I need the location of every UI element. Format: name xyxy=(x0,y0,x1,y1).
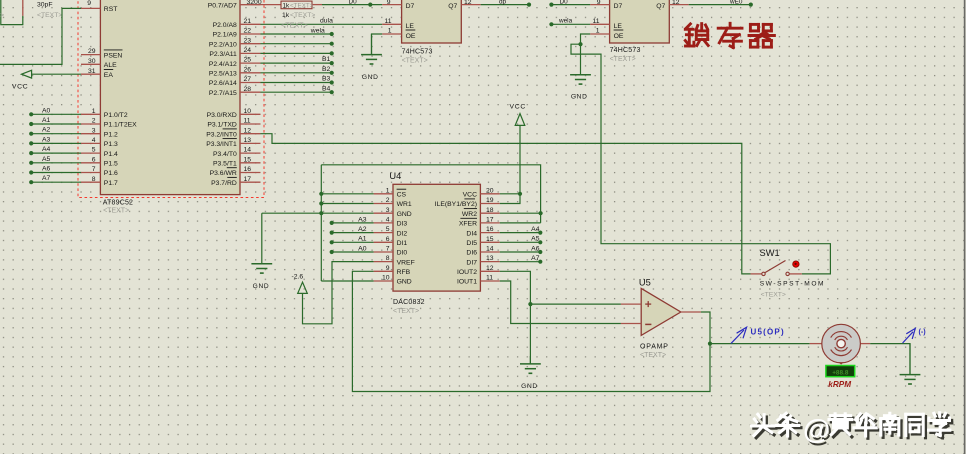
svg-text:A2: A2 xyxy=(42,127,51,134)
latch U2 pin D7 (9) xyxy=(382,4,401,6)
svg-text:A2: A2 xyxy=(358,226,367,233)
wire A2 xyxy=(31,133,81,135)
svg-text:16: 16 xyxy=(486,226,494,233)
svg-text:A3: A3 xyxy=(358,216,367,223)
svg-text:15: 15 xyxy=(244,156,252,163)
capacitor C2 pin (top-left, cut off) xyxy=(22,0,24,16)
svg-text:7: 7 xyxy=(92,166,96,173)
latch U3 74HC573 body xyxy=(610,0,670,43)
window right edge xyxy=(964,0,966,454)
latch U3 pin Q7 (12) xyxy=(669,4,688,6)
svg-text:74HC573: 74HC573 xyxy=(610,47,641,54)
svg-text:ILE(BY1/BY2): ILE(BY1/BY2) xyxy=(435,201,477,208)
svg-text:SW-SPST-MOM: SW-SPST-MOM xyxy=(760,280,825,287)
wire B3 xyxy=(261,82,332,84)
svg-text:P3.7/RD: P3.7/RD xyxy=(211,180,237,187)
MCU right pin stubs xyxy=(240,4,261,6)
power terminal VCC (EA) xyxy=(22,70,32,78)
svg-text:EA: EA xyxy=(104,72,114,79)
wire A3 xyxy=(31,142,81,144)
svg-text:GND: GND xyxy=(397,211,412,218)
wire A7 xyxy=(500,261,541,263)
latch U2 pin Q7 (12) xyxy=(461,4,480,6)
svg-text:AT89C52: AT89C52 xyxy=(103,199,133,206)
svg-text:A5: A5 xyxy=(42,156,51,163)
svg-text:T>: T> xyxy=(0,12,4,19)
DAC U4 left pin stubs xyxy=(374,193,393,195)
svg-text:P1.4: P1.4 xyxy=(104,151,118,158)
ground (motor return) xyxy=(909,344,911,375)
svg-text:<TEXT>: <TEXT> xyxy=(290,12,315,19)
wire WR1 to ground net xyxy=(321,203,373,205)
svg-text:P0.7/AD7: P0.7/AD7 xyxy=(208,2,237,9)
svg-text:26: 26 xyxy=(244,66,252,73)
MCU U1 AT89C52 body xyxy=(100,0,240,195)
svg-text:VCC: VCC xyxy=(12,83,28,90)
wire ground net top horizontal to WR2/XFER xyxy=(321,165,540,223)
svg-text:12: 12 xyxy=(672,0,680,6)
svg-text:OE: OE xyxy=(614,33,624,40)
svg-text:IOUT2: IOUT2 xyxy=(457,269,477,276)
op-amp output pin stub xyxy=(681,311,701,313)
svg-text:VREF: VREF xyxy=(397,259,415,266)
wire opamp output to motor node xyxy=(701,312,710,344)
svg-text:A6: A6 xyxy=(531,245,540,252)
svg-text:D7: D7 xyxy=(614,3,623,10)
wire A0 xyxy=(31,113,81,115)
motor rpm display xyxy=(826,366,855,377)
wire P2.2 xyxy=(261,43,332,45)
svg-text:<TEXT>: <TEXT> xyxy=(640,352,666,359)
svg-text:1: 1 xyxy=(92,108,96,115)
svg-text:B4: B4 xyxy=(322,85,331,92)
svg-text:10: 10 xyxy=(244,108,252,115)
svg-text:P2.2/A10: P2.2/A10 xyxy=(209,41,237,48)
svg-text:<TEXT>: <TEXT> xyxy=(103,208,129,215)
svg-text:10: 10 xyxy=(382,275,390,282)
svg-text:A1: A1 xyxy=(42,117,51,124)
svg-text:WR1: WR1 xyxy=(397,201,412,208)
svg-text:OE: OE xyxy=(406,33,416,40)
wire RST net xyxy=(0,8,81,64)
svg-text:12: 12 xyxy=(464,0,472,6)
svg-text:19: 19 xyxy=(486,197,494,204)
latch U2 pin OE (1) xyxy=(382,33,401,35)
wire P3.2/INT0 to SW1 xyxy=(261,134,751,274)
wire net dula (P2.0 to U2 LE) xyxy=(261,23,383,25)
svg-text:5: 5 xyxy=(386,226,390,233)
svg-text:+88.8: +88.8 xyxy=(832,369,849,376)
svg-text:A7: A7 xyxy=(531,255,540,262)
wire opamp + input xyxy=(530,303,621,305)
svg-text:4: 4 xyxy=(92,137,96,144)
latch U2 pin LE (11) xyxy=(382,23,401,25)
svg-text:GND: GND xyxy=(362,74,379,81)
latch U3 pin D7 (9) xyxy=(590,4,609,6)
wire VCC to DAC pins 20,19 xyxy=(500,125,520,193)
svg-text:11: 11 xyxy=(486,275,493,282)
svg-text:GND: GND xyxy=(521,383,538,390)
svg-text:P3.2/INT0: P3.2/INT0 xyxy=(206,131,237,138)
svg-text:P1.6: P1.6 xyxy=(104,170,118,177)
svg-text:4: 4 xyxy=(386,217,390,224)
wire ground net vertical xyxy=(320,165,322,281)
svg-text:18: 18 xyxy=(486,207,494,214)
svg-text:SW1: SW1 xyxy=(760,248,780,258)
svg-text:P2.7/A15: P2.7/A15 xyxy=(209,90,237,97)
wire net D0 into U3 D7 xyxy=(551,4,590,6)
voltage probe U5(OP) xyxy=(731,330,744,343)
wire net wela (P2.1) xyxy=(261,33,332,35)
wire B2 xyxy=(261,72,332,74)
DAC U4 DAC0832 body xyxy=(393,184,480,291)
svg-text:PSEN: PSEN xyxy=(104,52,123,59)
latch U3 pin OE (1) xyxy=(590,33,609,35)
svg-text:30pF: 30pF xyxy=(37,1,53,8)
wire XFER xyxy=(500,222,541,224)
wire A1 xyxy=(31,123,81,125)
watermark toutiao @huanghuanan (white with shadow) xyxy=(754,417,776,438)
svg-text:D0: D0 xyxy=(560,0,569,6)
svg-text:A7: A7 xyxy=(42,175,51,182)
svg-text:23: 23 xyxy=(244,37,252,44)
svg-text:15: 15 xyxy=(486,236,494,243)
wire A5 xyxy=(31,162,81,164)
svg-text:DI4: DI4 xyxy=(466,230,477,237)
svg-text:<TEXT>: <TEXT> xyxy=(281,21,308,30)
switch SW1 lever xyxy=(765,261,786,273)
svg-text:9: 9 xyxy=(386,265,390,272)
svg-text:wE0: wE0 xyxy=(729,0,743,5)
op-amp input pin stubs xyxy=(621,303,641,305)
wire A0 xyxy=(332,251,374,253)
svg-text:B3: B3 xyxy=(322,76,331,83)
wire A3 xyxy=(332,222,374,224)
svg-text:22: 22 xyxy=(244,28,252,35)
svg-text:GND: GND xyxy=(253,283,270,290)
svg-text:DI0: DI0 xyxy=(397,250,408,257)
svg-text:VCC: VCC xyxy=(463,192,477,199)
svg-text:Q7: Q7 xyxy=(656,3,665,10)
wire P2.3 xyxy=(261,52,332,54)
svg-text:12: 12 xyxy=(486,265,494,272)
wire U2 Q7 (net dp) xyxy=(481,4,529,6)
svg-text:1k: 1k xyxy=(283,2,291,9)
svg-text:DAC0832: DAC0832 xyxy=(393,299,425,306)
svg-text:DI7: DI7 xyxy=(466,259,477,266)
wire ground net to GND pin10 xyxy=(321,280,373,282)
svg-text:ALE: ALE xyxy=(104,62,117,69)
svg-text:P3.0/RXD: P3.0/RXD xyxy=(207,112,237,119)
op-amp U5 OPAMP xyxy=(641,288,681,335)
svg-text:U5(OP): U5(OP) xyxy=(751,327,785,336)
svg-text:<TEXT>: <TEXT> xyxy=(402,58,428,65)
wire A1 xyxy=(332,241,374,243)
svg-text:<TEXT>: <TEXT> xyxy=(761,291,786,298)
svg-text:2: 2 xyxy=(92,118,96,125)
svg-text:A1: A1 xyxy=(358,236,367,243)
svg-text:9: 9 xyxy=(387,0,391,6)
svg-text:P2.1/A9: P2.1/A9 xyxy=(213,32,237,39)
svg-text:1: 1 xyxy=(596,28,600,35)
svg-text:A0: A0 xyxy=(358,245,367,252)
svg-text:P2.4/A12: P2.4/A12 xyxy=(209,61,237,68)
op-amp + symbol xyxy=(645,303,651,305)
svg-text:P3.3/INT1: P3.3/INT1 xyxy=(206,141,237,148)
svg-text:IOUT1: IOUT1 xyxy=(457,279,477,286)
svg-text:27: 27 xyxy=(244,76,252,83)
latch U3 pin LE (11) xyxy=(590,23,609,25)
svg-text:kRPM: kRPM xyxy=(828,380,851,389)
ground (U3 OE) xyxy=(580,44,582,74)
wire RFB feedback from output xyxy=(352,271,710,391)
MCU left pin stubs xyxy=(81,7,100,9)
svg-text:GND: GND xyxy=(571,94,588,101)
motor M1 body xyxy=(810,343,822,345)
svg-text:11: 11 xyxy=(384,18,391,25)
wire A6 xyxy=(31,172,81,174)
svg-text:28: 28 xyxy=(244,86,252,93)
wire A2 xyxy=(332,232,374,234)
svg-text:8: 8 xyxy=(386,255,390,262)
wire U3 OE to ground with branch to SW1 xyxy=(581,34,591,44)
switch SW1 actuator dot (red) xyxy=(793,261,799,267)
svg-text:1: 1 xyxy=(388,28,392,35)
svg-text:11: 11 xyxy=(244,118,251,125)
svg-text:-2.6: -2.6 xyxy=(292,273,304,280)
svg-text:1: 1 xyxy=(386,187,390,194)
svg-text:dp: dp xyxy=(499,0,507,6)
wire IOUT2 to opamp + and ground xyxy=(500,271,531,364)
op-amp - symbol xyxy=(645,323,651,325)
svg-text:RFB: RFB xyxy=(397,269,411,276)
svg-text:9: 9 xyxy=(87,0,91,7)
MCU selection box (red dashed) xyxy=(78,0,264,198)
svg-text:LE: LE xyxy=(406,23,415,30)
svg-text:WR2: WR2 xyxy=(462,211,477,218)
svg-text:16: 16 xyxy=(244,166,252,173)
svg-text:P3.5/T1: P3.5/T1 xyxy=(213,161,237,168)
svg-text:P2.3/A11: P2.3/A11 xyxy=(209,51,237,58)
svg-text:<TEXT>: <TEXT> xyxy=(393,308,419,315)
ground (IOUT2 net) xyxy=(529,356,531,364)
svg-text:P1.7: P1.7 xyxy=(104,180,118,187)
wire motor to right ground xyxy=(870,344,910,375)
ground (DAC pin 3) xyxy=(261,213,263,264)
title text 'suo cun qi' (Chinese, red) xyxy=(685,24,708,46)
wire -2.6 to VREF xyxy=(303,262,374,324)
svg-text:2: 2 xyxy=(386,197,390,204)
svg-text:dula: dula xyxy=(320,17,333,24)
svg-text:17: 17 xyxy=(244,176,252,183)
svg-text:D0: D0 xyxy=(349,0,358,6)
svg-text:GND: GND xyxy=(397,279,412,286)
svg-text:CS: CS xyxy=(397,192,407,199)
svg-text:12: 12 xyxy=(244,127,252,134)
svg-text:11: 11 xyxy=(592,18,599,25)
wire ground net to SW1 right terminal xyxy=(571,44,830,274)
svg-text:P2.6/A14: P2.6/A14 xyxy=(209,80,237,87)
svg-text:LE: LE xyxy=(614,23,623,30)
wire WR2 xyxy=(500,212,541,214)
svg-text:P1.2: P1.2 xyxy=(104,131,118,138)
latch U2 74HC573 body xyxy=(402,0,462,43)
DAC U4 right pin stubs xyxy=(480,193,499,195)
svg-text:Q7: Q7 xyxy=(448,3,457,10)
svg-text:@: @ xyxy=(803,414,830,445)
svg-text:6: 6 xyxy=(92,156,96,163)
svg-text:29: 29 xyxy=(88,48,96,55)
svg-text:9: 9 xyxy=(597,0,601,6)
svg-text:P2.5/A13: P2.5/A13 xyxy=(209,71,237,78)
svg-text:24: 24 xyxy=(244,47,252,54)
svg-text:B2: B2 xyxy=(322,66,331,73)
wire B1 xyxy=(261,62,332,64)
svg-text:XFER: XFER xyxy=(459,221,477,228)
wire A5 xyxy=(500,241,541,243)
svg-text:74HC573: 74HC573 xyxy=(402,49,433,56)
wire GND pin3 to ground symbol xyxy=(262,212,374,214)
svg-text:A4: A4 xyxy=(42,146,51,153)
svg-text:14: 14 xyxy=(486,246,494,253)
svg-text:A5: A5 xyxy=(531,236,540,243)
wire net wela into U3 LE xyxy=(551,23,590,25)
svg-text:U4: U4 xyxy=(389,171,401,181)
svg-text:1k: 1k xyxy=(282,12,290,19)
wire output node to motor xyxy=(710,343,810,345)
svg-text:(-): (-) xyxy=(919,327,927,336)
wire A6 xyxy=(500,251,541,253)
motor shaft xyxy=(837,339,845,347)
svg-text:8: 8 xyxy=(92,176,96,183)
svg-text:A3: A3 xyxy=(42,136,51,143)
wire A4 xyxy=(500,232,541,234)
svg-text:30: 30 xyxy=(88,58,96,65)
svg-text:3200: 3200 xyxy=(247,0,262,6)
svg-text:DI6: DI6 xyxy=(466,250,477,257)
svg-text:wela: wela xyxy=(310,27,325,34)
wire CS to ground net xyxy=(321,193,373,195)
svg-text:P3.6/WR: P3.6/WR xyxy=(210,170,237,177)
svg-text:21: 21 xyxy=(244,18,252,25)
svg-text:P3.1/TXD: P3.1/TXD xyxy=(207,122,237,129)
svg-text:20: 20 xyxy=(486,187,494,194)
svg-text:<TEXT>: <TEXT> xyxy=(290,2,314,9)
svg-text:DI1: DI1 xyxy=(397,240,408,247)
wire P0.7 to U2 D7 xyxy=(322,4,382,6)
svg-text:DI5: DI5 xyxy=(466,240,477,247)
svg-text:P2.0/A8: P2.0/A8 xyxy=(213,22,237,29)
wire B4 xyxy=(261,91,332,93)
svg-text:OPAMP: OPAMP xyxy=(640,343,669,350)
svg-text:<TEXT>: <TEXT> xyxy=(37,12,62,19)
resistor R1 1k (P0.7 line) xyxy=(240,4,281,6)
svg-text:13: 13 xyxy=(244,137,252,144)
svg-text:A0: A0 xyxy=(42,107,51,114)
svg-text:P1.0/T2: P1.0/T2 xyxy=(104,112,128,119)
svg-text:RST: RST xyxy=(104,6,118,13)
svg-text:5: 5 xyxy=(92,147,96,154)
svg-text:31: 31 xyxy=(88,68,96,75)
svg-text:A4: A4 xyxy=(531,226,540,233)
svg-text:14: 14 xyxy=(244,147,252,154)
wire EA to VCC xyxy=(32,73,81,75)
wire U2 OE to ground xyxy=(372,34,383,55)
svg-text:17: 17 xyxy=(486,217,494,224)
svg-text:wela: wela xyxy=(558,17,573,24)
svg-text:3: 3 xyxy=(92,127,96,134)
motor armature arcs xyxy=(831,332,852,338)
wire A4 xyxy=(31,152,81,154)
svg-text:P3.4/T0: P3.4/T0 xyxy=(213,151,237,158)
wire IOUT1 to opamp - input xyxy=(500,281,621,324)
svg-text:P1.1/T2EX: P1.1/T2EX xyxy=(104,122,137,129)
svg-text:A6: A6 xyxy=(42,166,51,173)
svg-text:13: 13 xyxy=(486,255,494,262)
wire capacitor to crystal (left edge) xyxy=(1,0,23,25)
svg-text:U5: U5 xyxy=(639,277,651,287)
svg-text:25: 25 xyxy=(244,57,252,64)
wire A7 xyxy=(31,181,81,183)
svg-text:P1.5: P1.5 xyxy=(104,161,118,168)
svg-text:B1: B1 xyxy=(322,56,331,63)
svg-text:P1.3: P1.3 xyxy=(104,141,118,148)
junction dots on DAC ground net xyxy=(319,192,323,196)
svg-text:DI3: DI3 xyxy=(397,221,408,228)
svg-text:D7: D7 xyxy=(406,3,415,10)
svg-text:<TEXT>: <TEXT> xyxy=(610,56,636,63)
voltage probe (-) xyxy=(903,332,913,343)
ground (U2 OE) xyxy=(371,34,373,55)
svg-text:6: 6 xyxy=(386,236,390,243)
svg-text:3: 3 xyxy=(386,207,390,214)
svg-text:VCC: VCC xyxy=(510,104,526,111)
wire U3 Q7 (net wE0) xyxy=(689,4,751,6)
svg-text:7: 7 xyxy=(386,246,390,253)
svg-text:DI2: DI2 xyxy=(397,230,408,237)
